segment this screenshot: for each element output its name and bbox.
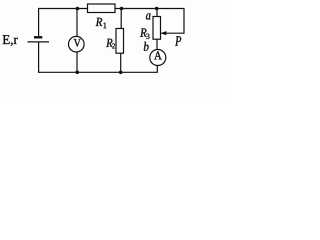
voltmeter circle xyxy=(69,36,85,52)
wire: voltmeter branch top xyxy=(76,9,78,37)
label E,r xyxy=(3,35,18,46)
junction node top R2 xyxy=(120,7,124,11)
battery E,r short thick plate xyxy=(34,36,42,38)
voltmeter letter V xyxy=(74,39,81,47)
resistor R1 body xyxy=(88,4,116,13)
wire: R3 branch top xyxy=(156,9,158,17)
wire: R3 to ammeter xyxy=(156,39,158,49)
ammeter letter A xyxy=(154,51,162,59)
label b (R3 bottom terminal) xyxy=(144,42,149,51)
ammeter circle xyxy=(150,50,166,66)
potentiometer wiper arrowhead xyxy=(160,31,166,35)
label R1 xyxy=(96,18,107,28)
label a (R3 top terminal) xyxy=(146,13,151,19)
junction node top R3 xyxy=(155,7,159,11)
battery E,r long thin plate xyxy=(28,41,50,43)
label R3 xyxy=(140,29,149,39)
label R2 xyxy=(106,39,115,49)
label P (wiper) xyxy=(175,36,181,45)
wire: battery bottom, bottom rail, ammeter bottom xyxy=(39,42,158,72)
junction node top voltmeter xyxy=(76,7,80,11)
wire: R2 branch top xyxy=(120,9,122,29)
wire: voltmeter branch bottom xyxy=(76,52,78,72)
resistor R3 body xyxy=(153,17,161,40)
wire: top rail R1 to corner + wiper drop xyxy=(115,9,184,34)
wire: left branch top + top rail to R1 xyxy=(39,9,88,37)
resistor R2 body xyxy=(116,29,124,54)
wire: R2 branch bottom xyxy=(120,53,122,72)
junction node bottom voltmeter xyxy=(75,71,79,75)
junction node bottom R2 xyxy=(119,71,123,75)
